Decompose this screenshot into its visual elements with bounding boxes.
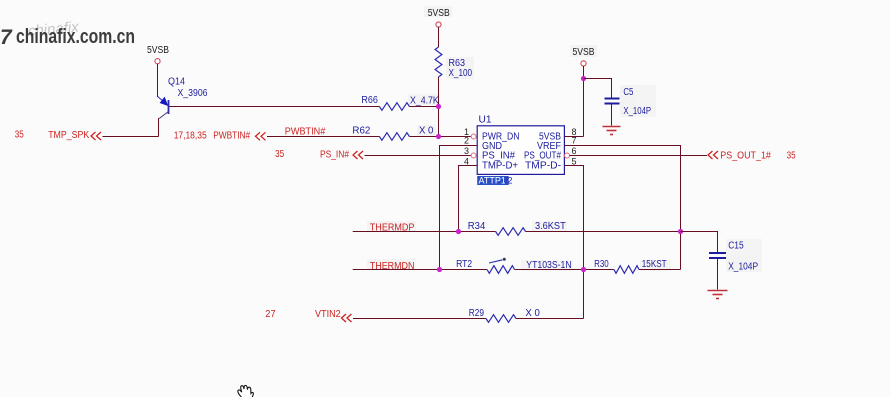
svg-text:X_104P: X_104P xyxy=(728,262,758,273)
wire VTIN2 to R29 xyxy=(353,318,486,320)
svg-text:2: 2 xyxy=(464,136,469,146)
wire Q14 collector down xyxy=(158,118,160,137)
resistor R63 xyxy=(435,47,472,79)
ground (C15) xyxy=(708,291,728,299)
resistor R62 xyxy=(352,126,433,141)
svg-text:R34: R34 xyxy=(468,221,486,232)
svg-text:7: 7 xyxy=(571,136,576,146)
svg-text:TMP-D+: TMP-D+ xyxy=(482,161,518,172)
resistor R34 xyxy=(468,221,566,235)
svg-text:X_3906: X_3906 xyxy=(178,88,208,99)
svg-text:X_4.7K: X_4.7K xyxy=(410,96,439,107)
svg-text:ATTP1: ATTP1 xyxy=(479,176,506,186)
junction node pin5/THERMDN xyxy=(581,267,586,272)
svg-text:35: 35 xyxy=(275,149,284,160)
svg-text:U1: U1 xyxy=(479,115,492,126)
wire U1 pin 8 xyxy=(564,136,583,138)
wire 5VSB to Q14 emitter xyxy=(157,64,159,97)
wire R63 to pin1 node xyxy=(438,77,440,137)
hand cursor xyxy=(238,385,254,397)
svg-text:4: 4 xyxy=(464,156,469,166)
wire C15 to ground xyxy=(717,259,719,290)
svg-text:X 0: X 0 xyxy=(525,308,540,319)
svg-text:C15: C15 xyxy=(728,241,744,252)
junction node VREF/C15 xyxy=(678,229,683,234)
svg-text:R62: R62 xyxy=(352,126,370,137)
svg-text:3.6KST: 3.6KST xyxy=(535,221,566,232)
junction node pin1/R63 xyxy=(436,134,441,139)
svg-text:R66: R66 xyxy=(361,95,378,106)
resistor R30 xyxy=(594,259,667,273)
thermistor RT2 xyxy=(456,258,571,274)
wire R62 to U1 pin 1 xyxy=(409,136,471,138)
wire 5VSB down to pin 8 xyxy=(583,66,585,137)
wire U1 pin 7 VREF xyxy=(564,146,680,270)
svg-text:3: 3 xyxy=(464,146,469,156)
capacitor C5 xyxy=(605,87,652,117)
wire R30 to corner xyxy=(639,269,681,271)
wire Q14 base xyxy=(169,106,379,108)
wire 5VSB to R63 xyxy=(438,27,440,47)
wire C5 to ground xyxy=(611,105,613,126)
wire U1 pin 6 PS_OUT# xyxy=(570,155,707,157)
wire U1 pin 4 TMP-D+ to THERMDP xyxy=(459,166,478,232)
resistor R66 xyxy=(361,95,439,110)
svg-text:chinafix.com.cn: chinafix.com.cn xyxy=(16,26,135,48)
part label ATTP1/2 xyxy=(477,176,512,186)
pin 1 bubble xyxy=(471,134,476,139)
svg-text:/2: /2 xyxy=(505,176,513,186)
svg-text:Q14: Q14 xyxy=(168,77,185,88)
wire junction to C15 xyxy=(681,232,718,253)
svg-text:R29: R29 xyxy=(469,308,485,319)
off-page connector PWBTIN# xyxy=(174,131,266,142)
svg-text:17,18,35: 17,18,35 xyxy=(174,131,207,142)
svg-text:7: 7 xyxy=(0,26,13,49)
svg-text:PWBTIN#: PWBTIN# xyxy=(213,131,250,142)
svg-text:R30: R30 xyxy=(594,259,609,270)
resistor R29 xyxy=(469,308,540,322)
svg-text:15KST: 15KST xyxy=(642,259,667,270)
wire THERMDP row xyxy=(353,231,496,233)
pin 3 bubble xyxy=(471,153,476,158)
svg-text:PS_IN#: PS_IN# xyxy=(320,150,349,161)
svg-text:PWBTIN#: PWBTIN# xyxy=(285,127,326,138)
wire U1 pin 2 GND to THERMDN xyxy=(440,146,478,270)
junction node 5VSB/C5 xyxy=(581,76,586,81)
wire TMP_SPK xyxy=(103,136,159,138)
svg-text:X_100: X_100 xyxy=(449,68,473,79)
IC U1 xyxy=(477,115,564,175)
svg-text:5VSB: 5VSB xyxy=(147,45,169,56)
pin 6 bubble xyxy=(565,153,570,158)
svg-text:6: 6 xyxy=(571,146,576,156)
svg-text:TMP-D-: TMP-D- xyxy=(525,161,561,172)
power terminal 5VSB (left, above Q14) xyxy=(147,45,169,64)
junction node GND/THERMDN xyxy=(437,267,442,272)
transistor Q14 xyxy=(158,77,208,119)
svg-text:5VSB: 5VSB xyxy=(573,47,595,58)
wire to C5 xyxy=(584,79,612,98)
svg-text:35: 35 xyxy=(15,130,24,141)
wire R34 to junction xyxy=(526,231,681,233)
power terminal 5VSB (top, above R63) xyxy=(428,8,450,27)
svg-text:5VSB: 5VSB xyxy=(428,8,450,19)
ground (C5) xyxy=(603,127,621,135)
capacitor C15 xyxy=(709,241,758,273)
svg-text:THERMDN: THERMDN xyxy=(370,261,415,272)
svg-text:PS_OUT_1#: PS_OUT_1# xyxy=(720,151,771,162)
svg-text:35: 35 xyxy=(787,151,796,162)
svg-text:TMP_SPK: TMP_SPK xyxy=(48,130,89,141)
svg-text:27: 27 xyxy=(265,309,276,320)
svg-text:X_104P: X_104P xyxy=(623,106,651,117)
off-page connector PS_OUT_1# xyxy=(708,151,796,162)
wire THERMDN row xyxy=(353,269,487,271)
off-page connector VTIN2 xyxy=(265,309,351,322)
junction node pin4/THERMDP xyxy=(456,229,461,234)
wire PS_IN# to U1 pin 3 xyxy=(365,155,472,157)
svg-text:C5: C5 xyxy=(623,87,633,98)
off-page connector PS_IN# xyxy=(275,149,363,161)
wire RT2 to R30 xyxy=(515,269,615,271)
wire U1 pin 5 TMP-D- xyxy=(564,166,583,319)
wire R29 to pin5 line xyxy=(516,318,584,320)
wire PWBTIN# to R62 xyxy=(267,136,379,138)
watermark chinafix.com.cn xyxy=(0,19,135,49)
off-page connector TMP_SPK xyxy=(15,130,101,142)
wire R66 to node xyxy=(409,106,438,108)
svg-text:5: 5 xyxy=(571,156,576,166)
power terminal 5VSB (right, above C5) xyxy=(573,47,595,66)
junction node R66/R63 xyxy=(436,104,441,109)
svg-text:VTIN2: VTIN2 xyxy=(315,309,341,320)
svg-text:RT2: RT2 xyxy=(456,259,472,270)
svg-text:X 0: X 0 xyxy=(419,126,434,137)
